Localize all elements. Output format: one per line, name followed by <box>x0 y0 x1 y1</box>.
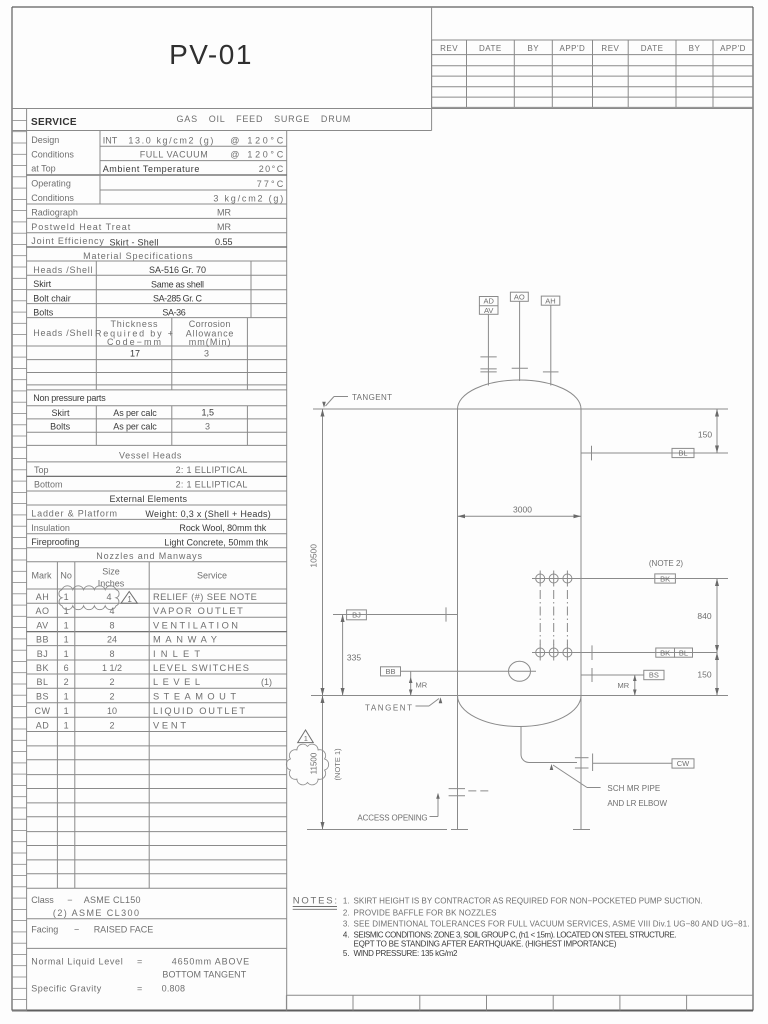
svg-text:Heads /Shell: Heads /Shell <box>33 328 92 338</box>
svg-text:FULL VACUUM: FULL VACUUM <box>140 150 208 160</box>
svg-text:1: 1 <box>64 720 69 730</box>
svg-text:3000: 3000 <box>513 504 532 514</box>
svg-text:Same as shell: Same as shell <box>151 279 204 289</box>
svg-text:Inches: Inches <box>98 579 125 589</box>
svg-text:EQPT TO BE STANDING AFTER EART: EQPT TO BE STANDING AFTER EARTHQUAKE. (H… <box>354 939 617 948</box>
svg-text:1: 1 <box>64 692 69 702</box>
svg-text:1 1/2: 1 1/2 <box>102 663 122 673</box>
svg-text:335: 335 <box>347 653 361 663</box>
svg-text:SA-285 Gr. C: SA-285 Gr. C <box>153 294 203 304</box>
svg-text:Conditions: Conditions <box>31 149 74 159</box>
svg-text:SEE DIMENTIONAL TOLERANCES FOR: SEE DIMENTIONAL TOLERANCES FOR FULL VACU… <box>354 920 750 929</box>
svg-text:=: = <box>137 983 142 993</box>
svg-text:3 kg/cm2 (g): 3 kg/cm2 (g) <box>213 193 283 203</box>
svg-text:REV: REV <box>440 44 458 53</box>
svg-text:VAPOR OUTLET: VAPOR OUTLET <box>153 606 243 616</box>
svg-text:2: 2 <box>109 677 114 687</box>
svg-text:10500: 10500 <box>308 544 318 568</box>
svg-text:8: 8 <box>109 621 114 631</box>
svg-text:Mark: Mark <box>32 571 52 581</box>
svg-text:VENTILATION: VENTILATION <box>153 621 238 631</box>
svg-text:BK: BK <box>660 648 670 657</box>
svg-text:REV: REV <box>601 44 619 53</box>
svg-text:Vessel Heads: Vessel Heads <box>119 451 182 461</box>
svg-text:BY: BY <box>527 44 539 53</box>
svg-text:BL: BL <box>678 449 687 458</box>
svg-text:(2) ASME CL300: (2) ASME CL300 <box>53 908 139 918</box>
svg-text:SCH MR PIPE: SCH MR PIPE <box>607 784 660 793</box>
svg-text:11500: 11500 <box>310 752 319 774</box>
svg-text:No: No <box>60 571 72 581</box>
svg-text:120°C: 120°C <box>247 135 283 145</box>
svg-text:840: 840 <box>697 611 711 621</box>
svg-text:SA-36: SA-36 <box>162 308 185 318</box>
svg-text:1: 1 <box>304 734 308 743</box>
svg-text:Skirt - Shell: Skirt - Shell <box>110 237 159 247</box>
svg-text:BB: BB <box>385 667 395 676</box>
svg-text:Weight: 0,3 x (Shell + Heads): Weight: 0,3 x (Shell + Heads) <box>145 509 270 519</box>
svg-text:AH: AH <box>36 592 50 602</box>
svg-text:77°C: 77°C <box>257 179 284 189</box>
svg-text:10: 10 <box>107 706 117 716</box>
svg-text:BB: BB <box>36 635 49 645</box>
svg-text:As per calc: As per calc <box>113 408 157 418</box>
svg-text:Radiograph: Radiograph <box>31 208 78 218</box>
svg-text:APP'D: APP'D <box>720 44 746 53</box>
svg-text:BK: BK <box>660 574 670 583</box>
svg-text:1: 1 <box>64 621 69 631</box>
svg-text:2.: 2. <box>343 909 350 918</box>
svg-text:2: 1 ELLIPTICAL: 2: 1 ELLIPTICAL <box>176 480 248 490</box>
svg-text:13.0 kg/cm2 (g): 13.0 kg/cm2 (g) <box>128 135 213 145</box>
svg-text:1: 1 <box>64 706 69 716</box>
svg-text:2: 2 <box>109 720 114 730</box>
svg-text:SERVICE: SERVICE <box>31 117 77 128</box>
svg-text:@: @ <box>230 135 239 145</box>
svg-text:Bottom: Bottom <box>34 480 63 490</box>
svg-text:As per calc: As per calc <box>113 421 157 431</box>
svg-text:24: 24 <box>107 635 117 645</box>
svg-text:3: 3 <box>204 349 209 359</box>
svg-text:BL: BL <box>36 677 48 687</box>
svg-text:LIQUID OUTLET: LIQUID OUTLET <box>153 706 245 716</box>
svg-text:(1): (1) <box>261 677 272 687</box>
svg-text:Non pressure parts: Non pressure parts <box>33 393 106 403</box>
svg-text:GAS OIL FEED SURGE DRUM: GAS OIL FEED SURGE DRUM <box>177 114 352 124</box>
svg-text:1,5: 1,5 <box>201 408 214 418</box>
svg-text:NOTES:: NOTES: <box>293 896 337 907</box>
svg-text:(NOTE 1): (NOTE 1) <box>333 748 342 781</box>
svg-text:AV: AV <box>484 306 493 315</box>
svg-text:RAISED FACE: RAISED FACE <box>94 924 154 934</box>
svg-text:TANGENT: TANGENT <box>365 704 412 713</box>
svg-text:AD: AD <box>483 297 494 306</box>
svg-text:0.55: 0.55 <box>215 237 233 247</box>
svg-text:Ambient Temperature: Ambient Temperature <box>103 164 200 174</box>
svg-text:Design: Design <box>31 135 59 145</box>
svg-text:Operating: Operating <box>31 179 71 189</box>
svg-text:6: 6 <box>64 663 69 673</box>
svg-text:at Top: at Top <box>31 164 55 174</box>
svg-text:VENT: VENT <box>153 720 186 730</box>
svg-text:AO: AO <box>514 293 525 302</box>
svg-text:Specific Gravity: Specific Gravity <box>31 983 101 993</box>
svg-text:20°C: 20°C <box>259 164 284 174</box>
svg-text:4.: 4. <box>343 930 350 939</box>
svg-text:SKIRT HEIGHT IS BY CONTRACTOR: SKIRT HEIGHT IS BY CONTRACTOR AS REQUIRE… <box>354 897 703 906</box>
svg-text:Top: Top <box>34 465 49 475</box>
svg-text:150: 150 <box>698 430 712 440</box>
svg-text:Skirt: Skirt <box>52 408 70 418</box>
svg-text:mm(Min): mm(Min) <box>189 337 231 347</box>
svg-text:External Elements: External Elements <box>110 494 188 504</box>
svg-text:Rock Wool, 80mm thk: Rock Wool, 80mm thk <box>179 523 266 533</box>
svg-text:Nozzles and Manways: Nozzles and Manways <box>96 551 202 561</box>
svg-text:Normal Liquid Level: Normal Liquid Level <box>31 957 122 967</box>
svg-text:MR: MR <box>618 681 630 690</box>
svg-text:Postweld Heat Treat: Postweld Heat Treat <box>31 222 130 232</box>
svg-text:4: 4 <box>106 592 111 602</box>
svg-text:CW: CW <box>677 759 690 768</box>
svg-text:Code−mm: Code−mm <box>107 337 161 347</box>
svg-text:2: 2 <box>109 692 114 702</box>
svg-text:Light Concrete, 50mm thk: Light Concrete, 50mm thk <box>164 537 268 547</box>
svg-text:1: 1 <box>127 595 132 604</box>
svg-text:SA-516 Gr. 70: SA-516 Gr. 70 <box>149 265 206 275</box>
svg-text:4: 4 <box>109 606 114 616</box>
svg-text:−: − <box>74 924 79 934</box>
svg-text:AH: AH <box>545 296 555 305</box>
svg-text:PV-01: PV-01 <box>169 39 253 70</box>
svg-text:1: 1 <box>64 592 69 602</box>
svg-text:AND LR ELBOW: AND LR ELBOW <box>607 799 667 808</box>
svg-text:Material Specifications: Material Specifications <box>83 251 193 261</box>
svg-text:DATE: DATE <box>479 44 502 53</box>
svg-text:BOTTOM TANGENT: BOTTOM TANGENT <box>162 970 246 980</box>
svg-text:−: − <box>67 895 72 905</box>
svg-text:AV: AV <box>36 621 48 631</box>
svg-text:0.808: 0.808 <box>162 983 185 993</box>
svg-text:1: 1 <box>64 649 69 659</box>
svg-text:BS: BS <box>36 692 49 702</box>
svg-text:Heads /Shell: Heads /Shell <box>33 265 92 275</box>
svg-text:1: 1 <box>64 606 69 616</box>
svg-text:Facing: Facing <box>31 924 58 934</box>
svg-text:MR: MR <box>217 208 231 218</box>
svg-text:Size: Size <box>102 567 120 577</box>
svg-text:1.: 1. <box>343 897 350 906</box>
svg-text:AD: AD <box>36 720 50 730</box>
svg-text:8: 8 <box>109 649 114 659</box>
svg-text:Fireproofing: Fireproofing <box>31 537 79 547</box>
svg-text:@: @ <box>230 150 239 160</box>
svg-text:120°C: 120°C <box>247 150 283 160</box>
svg-text:Ladder & Platform: Ladder & Platform <box>31 509 117 519</box>
svg-text:ACCESS OPENING: ACCESS OPENING <box>357 814 427 823</box>
svg-text:3.: 3. <box>343 920 350 929</box>
svg-text:BL: BL <box>679 648 688 657</box>
svg-text:MR: MR <box>416 681 428 690</box>
svg-text:RELIEF (#) SEE NOTE: RELIEF (#) SEE NOTE <box>153 592 257 602</box>
svg-text:Skirt: Skirt <box>33 279 51 289</box>
svg-text:MANWAY: MANWAY <box>153 635 217 645</box>
svg-text:BJ: BJ <box>37 649 49 659</box>
svg-text:Conditions: Conditions <box>31 193 74 203</box>
svg-text:Insulation: Insulation <box>31 523 70 533</box>
svg-text:TANGENT: TANGENT <box>352 393 392 402</box>
svg-text:3: 3 <box>205 421 210 431</box>
svg-text:PROVIDE BAFFLE FOR BK NOZZLES: PROVIDE BAFFLE FOR BK NOZZLES <box>354 909 497 918</box>
svg-text:=: = <box>137 957 142 967</box>
svg-text:DATE: DATE <box>641 44 664 53</box>
svg-text:BY: BY <box>689 44 701 53</box>
svg-text:Bolts: Bolts <box>33 308 54 318</box>
svg-text:STEAMOUT: STEAMOUT <box>153 692 236 702</box>
svg-text:150: 150 <box>697 670 711 680</box>
svg-text:5.: 5. <box>343 949 350 958</box>
svg-text:4650mm ABOVE: 4650mm ABOVE <box>172 957 249 967</box>
svg-text:ASME CL150: ASME CL150 <box>84 895 141 905</box>
svg-text:BK: BK <box>36 663 49 673</box>
svg-text:Bolts: Bolts <box>50 421 71 431</box>
svg-text:Bolt chair: Bolt chair <box>33 294 71 304</box>
svg-text:WIND PRESSURE: 135 kG/m2: WIND PRESSURE: 135 kG/m2 <box>354 949 459 958</box>
svg-text:APP'D: APP'D <box>559 44 585 53</box>
svg-text:INLET: INLET <box>153 649 200 659</box>
svg-text:Joint Efficiency: Joint Efficiency <box>31 236 104 246</box>
svg-text:BJ: BJ <box>352 610 361 619</box>
svg-text:(NOTE 2): (NOTE 2) <box>649 559 684 568</box>
svg-text:17: 17 <box>130 349 140 359</box>
svg-text:Service: Service <box>197 571 227 581</box>
svg-text:LEVEL SWITCHES: LEVEL SWITCHES <box>153 663 249 673</box>
svg-text:LEVEL: LEVEL <box>153 677 200 687</box>
svg-text:2: 2 <box>64 677 69 687</box>
svg-text:2: 1 ELLIPTICAL: 2: 1 ELLIPTICAL <box>176 465 248 475</box>
svg-text:INT: INT <box>103 135 118 145</box>
svg-text:SEISMIC CONDITIONS: ZONE 3, SO: SEISMIC CONDITIONS: ZONE 3, SOIL GROUP C… <box>354 930 677 939</box>
svg-text:CW: CW <box>35 706 51 716</box>
svg-text:MR: MR <box>217 222 231 232</box>
svg-text:Class: Class <box>31 895 54 905</box>
svg-text:1: 1 <box>64 635 69 645</box>
svg-text:AO: AO <box>35 606 49 616</box>
svg-text:BS: BS <box>649 671 659 680</box>
